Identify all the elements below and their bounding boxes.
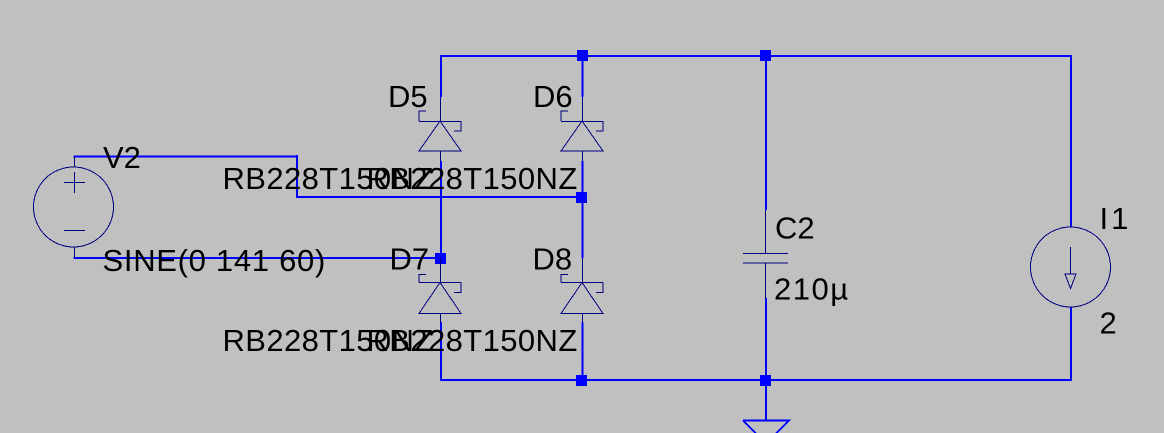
svg-text:RB228T150NZ: RB228T150NZ <box>367 323 578 358</box>
wire top rail <box>440 55 1072 57</box>
junction node AC1 <box>576 192 587 203</box>
diode D6 <box>561 97 603 161</box>
ground <box>743 421 789 433</box>
wire step vertical <box>296 155 298 198</box>
wire V2 plus horizontal <box>74 156 299 158</box>
svg-text:C2: C2 <box>775 211 815 246</box>
wire right vertical upper <box>1070 55 1072 227</box>
junction node top C2 <box>760 50 771 61</box>
wire D6 top drop <box>582 55 584 97</box>
wire AC1 horizontal <box>296 196 584 198</box>
wire ground stub <box>765 380 767 420</box>
wire right vertical lower <box>1070 307 1072 381</box>
wire C2 top <box>765 54 767 210</box>
svg-text:I1: I1 <box>1100 201 1132 236</box>
svg-text:2: 2 <box>1100 306 1117 341</box>
svg-text:210µ: 210µ <box>774 272 850 307</box>
junction node AC2 <box>435 253 446 264</box>
voltage source V2 <box>34 156 114 258</box>
wire D5 top drop <box>440 55 442 97</box>
wire D8 bottom <box>582 322 584 380</box>
junction node top D6 <box>577 50 588 61</box>
diode D5 <box>419 97 461 161</box>
svg-text:D7: D7 <box>390 242 430 277</box>
junction node bottom D8 <box>576 375 587 386</box>
junction node bottom C2 <box>760 375 771 386</box>
wire D5 to D7 vertical <box>440 161 442 256</box>
svg-text:SINE(0 141 60): SINE(0 141 60) <box>103 243 326 278</box>
svg-text:RB228T150NZ: RB228T150NZ <box>367 161 578 196</box>
current source I1 <box>1031 227 1111 307</box>
wire AC2 horizontal <box>74 257 443 259</box>
wire D7 bottom <box>440 322 442 381</box>
svg-text:V2: V2 <box>103 140 141 175</box>
wire D6 to D8 vertical <box>582 161 584 258</box>
diode D8 <box>561 258 603 323</box>
svg-text:D8: D8 <box>533 242 573 277</box>
svg-text:D6: D6 <box>533 79 573 114</box>
wire C2 bottom <box>765 298 767 380</box>
diode D7 <box>419 258 461 323</box>
svg-text:D5: D5 <box>388 79 428 114</box>
wire bottom rail <box>440 379 1072 381</box>
capacitor C2 <box>743 210 788 298</box>
